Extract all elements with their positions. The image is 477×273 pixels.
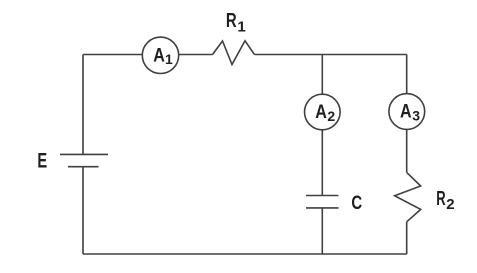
capacitor C (two plates) xyxy=(306,196,339,208)
wire: left branch from bottom-left corner up to battery xyxy=(82,167,84,254)
wire: segment between A1 and resistor R1 xyxy=(179,54,213,56)
svg-text:A: A xyxy=(315,102,327,123)
svg-text:1: 1 xyxy=(237,19,245,36)
svg-text:E: E xyxy=(37,149,47,173)
wire: middle branch from capacitor C down to bottom wire xyxy=(321,208,323,254)
svg-text:A: A xyxy=(400,101,412,122)
resistor R2 (vertical zigzag) xyxy=(395,172,421,221)
svg-text:R: R xyxy=(226,10,237,32)
wire: top horizontal segment from R1 through node to top-right corner xyxy=(255,54,407,56)
svg-text:1: 1 xyxy=(165,51,173,67)
battery E (long and short plates) xyxy=(60,154,108,166)
wire: top-left horizontal segment from corner to ammeter A1 xyxy=(83,54,142,56)
wire: right branch from R2 down to bottom-right corner xyxy=(406,222,408,254)
svg-text:R: R xyxy=(436,188,446,210)
label R1 xyxy=(226,10,246,35)
wire: left branch from battery up to top-left corner xyxy=(82,55,84,155)
ammeter A3 xyxy=(389,94,425,130)
wire: right branch from A3 down to resistor R2 xyxy=(406,129,408,172)
svg-text:3: 3 xyxy=(412,108,420,124)
ammeter A1 xyxy=(142,37,178,73)
resistor R1 (zigzag) xyxy=(213,41,255,65)
wire: bottom horizontal wire xyxy=(83,253,407,255)
ammeter A2 xyxy=(305,94,341,130)
svg-text:C: C xyxy=(351,193,362,214)
label R2 xyxy=(436,188,454,213)
wire: middle branch from top wire down to ammeter A2 xyxy=(321,55,323,95)
wire: middle branch from A2 down to capacitor C xyxy=(321,130,323,196)
wire: right branch from top-right corner down to ammeter A3 xyxy=(406,55,408,94)
svg-text:2: 2 xyxy=(327,108,335,124)
svg-text:A: A xyxy=(153,45,165,66)
svg-text:2: 2 xyxy=(446,196,454,213)
